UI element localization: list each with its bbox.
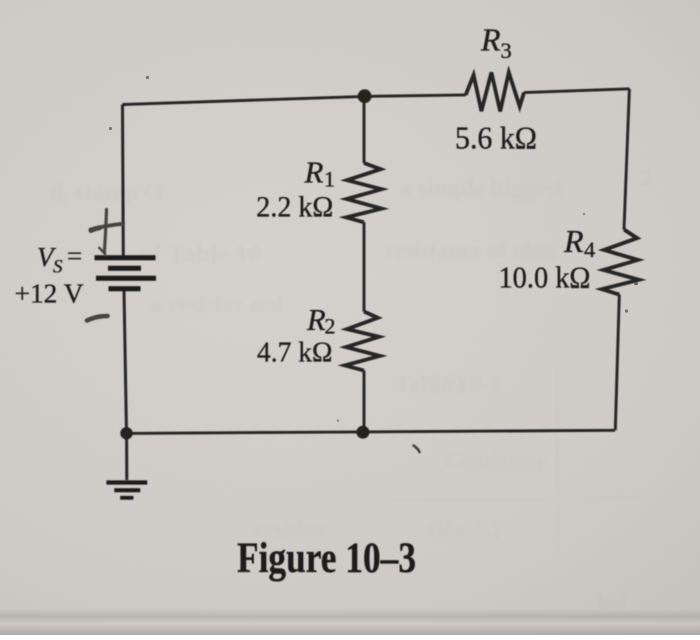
svg-text:4.7 kΩ: 4.7 kΩ bbox=[257, 337, 333, 369]
svg-text:of Table 10: of Table 10 bbox=[140, 239, 261, 268]
svg-text:4: 4 bbox=[584, 237, 595, 262]
svg-text:d, stamp O: d, stamp O bbox=[50, 180, 163, 206]
svg-text:a simple biggest: a simple biggest bbox=[400, 176, 563, 202]
resistor R4 bbox=[602, 230, 639, 295]
label R1 bbox=[304, 155, 336, 192]
wire: ground stem bbox=[125, 433, 128, 480]
wire: right vertical lower (R4 to bottom corner) bbox=[615, 295, 619, 431]
node A (top middle junction dot) bbox=[358, 89, 372, 103]
pencil minus sign bbox=[87, 316, 108, 321]
wire: middle lower (R2 to bottom node) bbox=[363, 371, 366, 432]
svg-text:Figure 10–3: Figure 10–3 bbox=[237, 535, 416, 582]
node B (bottom middle junction dot) bbox=[356, 426, 369, 439]
wire: top horizontal (node A to corners) bbox=[123, 95, 466, 105]
svg-text:=: = bbox=[67, 241, 82, 271]
svg-text:R: R bbox=[306, 303, 326, 337]
wire: right vertical upper (corner to R4) bbox=[624, 89, 629, 230]
wire: top right segment after R3 bbox=[524, 89, 629, 93]
svg-text:2.2 kΩ: 2.2 kΩ bbox=[256, 192, 333, 224]
label R4 bbox=[563, 223, 595, 262]
svg-text:1: 1 bbox=[324, 167, 335, 192]
resistor R3 bbox=[466, 72, 524, 111]
wire: middle between R1 and R2 bbox=[363, 222, 366, 311]
pencil plus sign with arrow to battery + terminal bbox=[91, 210, 123, 254]
svg-text:a resistor md: a resistor md bbox=[150, 292, 284, 318]
svg-text:+12 V: +12 V bbox=[15, 278, 84, 309]
label R2 bbox=[306, 303, 336, 339]
svg-text:3: 3 bbox=[501, 38, 512, 63]
svg-text:R: R bbox=[304, 155, 324, 190]
svg-text:Conductor: Conductor bbox=[445, 448, 547, 473]
wire: battery to bottom-left node bbox=[124, 291, 127, 433]
svg-text:2: 2 bbox=[325, 314, 336, 339]
wire: bottom horizontal bbox=[127, 430, 616, 433]
svg-text:R: R bbox=[563, 223, 584, 259]
svg-text:S: S bbox=[53, 257, 63, 278]
svg-text:Ohm(s): Ohm(s) bbox=[428, 518, 499, 543]
wire: left vertical (top corner to battery) bbox=[121, 105, 125, 258]
ground bbox=[106, 483, 147, 498]
svg-text:resistance of ohm: resistance of ohm bbox=[385, 238, 556, 263]
svg-text:5.6 kΩ: 5.6 kΩ bbox=[455, 120, 537, 156]
svg-text:(-9): (-9) bbox=[430, 370, 463, 395]
label VS = bbox=[37, 241, 82, 278]
label R3 bbox=[480, 22, 512, 64]
pencil tick mark bbox=[414, 446, 420, 453]
svg-text:10.0 kΩ: 10.0 kΩ bbox=[499, 261, 591, 295]
svg-text:b-d: b-d bbox=[598, 591, 627, 613]
battery VS bbox=[95, 258, 157, 289]
wire: middle vertical upper (node A to R1) bbox=[363, 97, 366, 164]
resistor R1 bbox=[346, 163, 382, 222]
svg-text:R: R bbox=[480, 22, 501, 58]
svg-text:2: 2 bbox=[640, 165, 651, 190]
resistor R2 bbox=[345, 312, 380, 371]
node G (bottom left junction dot) bbox=[120, 427, 132, 439]
